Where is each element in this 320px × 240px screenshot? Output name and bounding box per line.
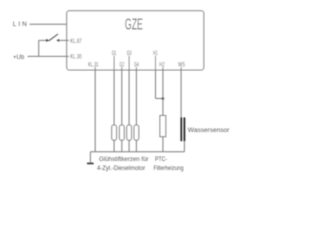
wire pin G4 to glow plug 4	[135, 67, 137, 125]
svg-text:GZE: GZE	[125, 17, 143, 34]
switch S1 left contact arrow	[46, 39, 49, 42]
water sensor electrode right	[184, 117, 186, 141]
wire pin H1 down	[155, 56, 157, 99]
ground symbol bar	[87, 163, 94, 165]
glow plug G4 element	[134, 125, 139, 140]
control unit GZE box	[67, 11, 204, 70]
switch S1 blade	[49, 34, 58, 41]
wire pin WS to water sensor	[180, 67, 182, 117]
svg-text:Glühstiftkerzen für: Glühstiftkerzen für	[99, 156, 149, 163]
wire pin KL.31 down to ground bus	[94, 67, 96, 152]
glow plug G2 element	[119, 125, 124, 140]
pin KL.87 stub inside box	[67, 39, 70, 41]
svg-text:KL.31: KL.31	[88, 61, 99, 68]
wire switch branch horizontal	[39, 39, 47, 41]
wire PTC heater to bus	[162, 137, 164, 152]
glow plug G3 element	[127, 125, 132, 140]
wire switch to pin KL.87	[59, 39, 67, 41]
wire switch branch vertical	[38, 40, 40, 56]
wire pin G2 to glow plug 2	[121, 67, 123, 125]
wire LIN to box	[30, 23, 67, 25]
ground bus wire	[90, 151, 184, 153]
wire H1 jog to H2 net	[156, 98, 163, 100]
wire water sensor right electrode to bus	[183, 141, 185, 152]
junction dot H1/H2	[162, 97, 165, 100]
pin KL.30 stub inside box	[67, 55, 70, 57]
switch S1 right contact arrow	[56, 39, 59, 42]
wire glow plug 2 to bus	[121, 140, 123, 152]
svg-text:4-Zyl.-Dieselmotor: 4-Zyl.-Dieselmotor	[97, 165, 146, 172]
water sensor electrode left	[180, 117, 182, 141]
wire +Ub to pin KL.30	[28, 55, 67, 57]
wire glow plug 4 to bus	[135, 140, 137, 152]
svg-text:KL.87: KL.87	[70, 38, 82, 45]
glow plug G1 element	[112, 125, 117, 140]
wire glow plug 1 to bus	[113, 140, 115, 152]
ground stub	[89, 152, 91, 163]
PTC heater element	[160, 116, 166, 137]
svg-text:H2: H2	[159, 61, 164, 68]
svg-text:KL.30: KL.30	[70, 53, 82, 60]
svg-text:LIN: LIN	[13, 21, 27, 28]
wire pin H2 to PTC heater	[162, 67, 164, 116]
svg-text:PTC-: PTC-	[155, 156, 167, 163]
svg-text:Wassersensor: Wassersensor	[188, 127, 230, 134]
wire glow plug 3 to bus	[128, 140, 130, 152]
wire pin G3 to glow plug 3	[128, 56, 130, 125]
svg-text:+Ub: +Ub	[13, 54, 25, 61]
wire pin G1 to glow plug 1	[113, 56, 115, 125]
svg-text:Filterheizung: Filterheizung	[154, 165, 184, 172]
